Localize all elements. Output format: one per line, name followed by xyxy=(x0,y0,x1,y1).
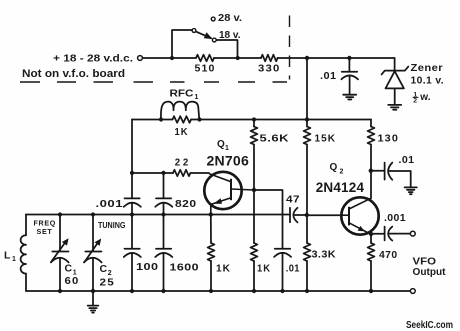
svg-text:SET: SET xyxy=(37,227,53,236)
node dot C2/ground xyxy=(91,289,95,293)
ground (main, below C2) xyxy=(88,291,99,313)
svg-text:60: 60 xyxy=(65,275,80,287)
label RFC1 xyxy=(170,88,199,101)
svg-text:Output: Output xyxy=(413,266,446,278)
dashed boundary horizontal (not on vfo board) xyxy=(20,81,287,83)
wire: x=307 from 15K to base node xyxy=(306,145,308,216)
label L1 xyxy=(4,249,16,263)
node junction dot A (switch tap) xyxy=(170,56,174,60)
svg-text:1K: 1K xyxy=(216,263,231,275)
svg-text:1: 1 xyxy=(225,145,229,152)
resistor 22 xyxy=(173,170,190,176)
vertical line x=132: .001 and 100 xyxy=(124,120,141,292)
ground (zener) xyxy=(388,105,401,110)
vertical line x=163.5: 820 and 1600 xyxy=(155,173,172,291)
wire: 22 to Q1 xyxy=(191,172,210,174)
svg-text:Q: Q xyxy=(217,139,225,150)
svg-text:2 2: 2 2 xyxy=(175,158,189,169)
node dot 100 bottom xyxy=(130,289,134,293)
wire: base to Q2 xyxy=(307,214,349,216)
switch S1 throw contact 18v xyxy=(212,38,216,42)
switch S1 pole contact xyxy=(192,29,196,33)
node dot 3.3K bottom xyxy=(305,289,309,293)
resistor 15K xyxy=(304,127,311,145)
node RFC right dot xyxy=(197,117,201,121)
svg-text:2N4124: 2N4124 xyxy=(316,179,365,195)
label FREQ SET xyxy=(34,218,57,236)
node dot Q2 base xyxy=(305,213,309,217)
wire: 18v contact to rail xyxy=(216,40,237,58)
wire: x=307 rail from top to 15K xyxy=(306,58,308,127)
resistor 130 xyxy=(368,120,375,199)
node dot base/820 xyxy=(161,171,165,175)
svg-text:+ 18 - 28 v.d.c.: + 18 - 28 v.d.c. xyxy=(53,54,133,65)
svg-text:.001: .001 xyxy=(96,198,124,210)
resistor 1K (parallel with RFC1) xyxy=(173,116,192,123)
capacitor .01 (x=282) xyxy=(274,249,291,291)
node: +18-28 vdc input terminal xyxy=(138,56,143,61)
switch S1 arm with arrow xyxy=(196,32,213,39)
node dot Q2 collector/.01 tap xyxy=(369,169,373,173)
resistor 5.6K xyxy=(251,120,258,191)
transistor Q2 2N4124 xyxy=(341,197,378,234)
node dot at 5.6K top xyxy=(252,117,256,121)
svg-text:5.6K: 5.6K xyxy=(260,133,290,145)
svg-text:470: 470 xyxy=(379,249,398,261)
node dot C1 bottom xyxy=(58,289,62,293)
svg-text:.001: .001 xyxy=(384,212,406,224)
svg-text:3.3K: 3.3K xyxy=(312,249,337,261)
svg-text:100: 100 xyxy=(136,261,159,273)
svg-text:1K: 1K xyxy=(257,263,271,275)
wire: switch riser xyxy=(172,30,192,58)
svg-text:C: C xyxy=(100,263,108,275)
svg-text:15K: 15K xyxy=(315,133,337,145)
variable capacitor C2 xyxy=(84,215,102,292)
capacitor 47 (coupling) xyxy=(290,208,307,223)
wire: rail between 510 and 330 xyxy=(214,57,261,59)
label 1/2 w. fraction xyxy=(413,91,431,104)
node dot base/.001 xyxy=(130,171,134,175)
svg-text:RFC: RFC xyxy=(170,88,194,99)
node dot Q1 collector junction xyxy=(252,188,256,192)
svg-text:1: 1 xyxy=(12,256,16,263)
label Q2 xyxy=(330,162,344,175)
wire: top rail left segment xyxy=(143,57,196,59)
resistor 1K (Q1 emitter) xyxy=(208,215,215,292)
resistor 470 xyxy=(368,234,375,291)
node dot 470 bottom xyxy=(369,289,373,293)
switch S1 throw contact 28v xyxy=(211,17,215,21)
wire: RFC row left xyxy=(132,119,173,121)
svg-text:2: 2 xyxy=(340,169,344,176)
svg-text:Q: Q xyxy=(330,162,338,173)
svg-text:Not on v.f.o. board: Not on v.f.o. board xyxy=(22,68,125,80)
resistor 510 xyxy=(196,55,214,62)
inductor L1 xyxy=(21,215,26,292)
resistor 330 xyxy=(261,55,278,62)
wire: collector to .01 branch xyxy=(254,190,283,249)
svg-text:C: C xyxy=(65,262,73,274)
node junction dot B xyxy=(236,56,240,60)
resistor 1K (collector) xyxy=(251,243,258,261)
svg-text:.01: .01 xyxy=(286,263,300,275)
svg-text:47: 47 xyxy=(286,194,300,206)
node: VFO output terminal xyxy=(410,231,415,236)
node junction dot at .01 xyxy=(347,56,351,60)
ground (Q2 .01) xyxy=(405,187,417,194)
svg-text:.01: .01 xyxy=(399,154,415,166)
node dot 1K emitter bottom xyxy=(209,289,213,293)
ground (top .01) xyxy=(343,95,356,100)
node dot 1600 bottom xyxy=(161,289,165,293)
capacitor .01 (top, bypass) xyxy=(341,58,358,94)
svg-text:Zener: Zener xyxy=(411,62,444,74)
svg-text:820: 820 xyxy=(175,198,197,210)
svg-text:28 v.: 28 v. xyxy=(218,13,242,24)
node: bottom output terminal xyxy=(410,289,415,294)
svg-text:2N706: 2N706 xyxy=(207,152,250,168)
zener diode 10.1v xyxy=(382,58,409,104)
capacitor .001 (output coupling) xyxy=(371,227,410,241)
svg-text:25: 25 xyxy=(100,276,116,288)
node dot 820/1600 junction xyxy=(161,212,165,216)
svg-text:.01: .01 xyxy=(320,70,337,82)
svg-text:1: 1 xyxy=(195,94,199,101)
node dot .001/100 junction xyxy=(130,212,134,216)
svg-text:FREQ: FREQ xyxy=(34,218,57,227)
capacitor .01 (Q2 collector bypass) xyxy=(371,163,411,187)
inductor RFC1 coil xyxy=(161,102,199,120)
wire: Q1 base line xyxy=(132,172,173,174)
node dot C2 top xyxy=(91,212,95,216)
node dot 1K collector bottom xyxy=(252,289,256,293)
wire: RFC row right xyxy=(191,119,371,121)
node dot at 15K top xyxy=(305,117,309,121)
node RFC left dot xyxy=(159,117,163,121)
svg-text:1K: 1K xyxy=(175,126,189,138)
dashed boundary vertical xyxy=(289,16,291,80)
wire: collector junction down through 1K to bottom xyxy=(253,190,255,243)
node dot Q1 emitter junction xyxy=(209,212,213,216)
wire below 1K xyxy=(253,261,255,291)
svg-text:510: 510 xyxy=(195,63,216,75)
svg-text:130: 130 xyxy=(378,133,400,145)
label C1 xyxy=(65,262,77,276)
svg-text:L: L xyxy=(4,249,11,261)
label C2 xyxy=(100,263,112,277)
resistor 3.3K xyxy=(304,215,311,291)
transistor Q1 2N706 xyxy=(204,172,254,215)
node dot .01 bottom xyxy=(280,289,284,293)
svg-text:TUNING: TUNING xyxy=(98,221,126,230)
svg-text:330: 330 xyxy=(258,63,281,75)
svg-text:SeekIC.com: SeekIC.com xyxy=(406,320,453,331)
label Q1 xyxy=(217,139,229,152)
node dot Q2 emitter xyxy=(369,232,373,236)
svg-text:w.: w. xyxy=(419,92,430,103)
svg-text:10.1 v.: 10.1 v. xyxy=(411,75,445,87)
node junction dot at 15K rail xyxy=(305,56,309,60)
tank/emitter rail y=214.5 xyxy=(26,214,290,216)
svg-text:2: 2 xyxy=(413,98,417,105)
variable capacitor C1 xyxy=(51,215,69,292)
svg-text:1600: 1600 xyxy=(170,261,200,273)
bottom ground rail xyxy=(26,290,410,292)
wire: rail 330 to zener corner xyxy=(278,57,395,59)
node dot C1 top xyxy=(58,212,62,216)
